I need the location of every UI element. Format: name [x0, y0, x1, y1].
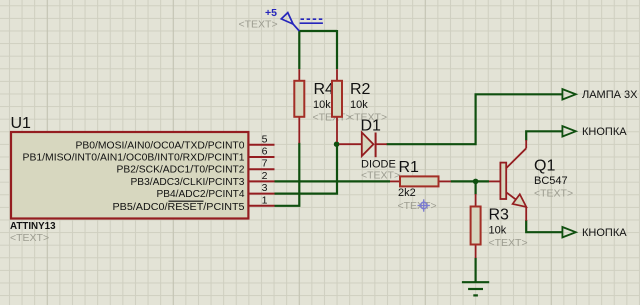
- U1 pin stub PB2 (pin 7): [249, 168, 275, 170]
- wire: R4 bottom to PB5 pin1: [275, 143, 300, 206]
- power terminal +5: [281, 13, 299, 31]
- U1 pin stub PB5 (pin 1): [249, 205, 275, 207]
- U1 pin stub PB1 (pin 6): [249, 156, 275, 158]
- svg-text:+5: +5: [265, 7, 277, 19]
- wire: diode cathode to LAMPA terminal: [387, 94, 563, 144]
- svg-text:PB3/ADC3/CLKI/PCINT3: PB3/ADC3/CLKI/PCINT3: [131, 177, 245, 188]
- emitter arrowhead: [513, 194, 527, 207]
- svg-text:U1: U1: [11, 115, 32, 132]
- transistor Q1: [489, 140, 526, 221]
- svg-text:ATTINY13: ATTINY13: [10, 221, 56, 232]
- emitter lead down: [525, 207, 527, 221]
- base lead: [489, 180, 500, 182]
- svg-text:PB5/ADC0/RESET/PCINT5: PB5/ADC0/RESET/PCINT5: [113, 202, 245, 213]
- resistor R3: [471, 194, 481, 258]
- svg-text:PB1/MISO/INT0/AIN1/OC0B/INT0/R: PB1/MISO/INT0/AIN1/OC0B/INT0/RXD/PCINT1: [23, 153, 245, 164]
- svg-text:7: 7: [262, 158, 268, 170]
- svg-text:R2: R2: [350, 81, 371, 98]
- svg-text:ЛАМПА 3Х: ЛАМПА 3Х: [582, 89, 638, 101]
- U1 pin stub PB3 (pin 2): [249, 180, 275, 182]
- svg-text:Q1: Q1: [534, 158, 555, 175]
- chip U1 body: [11, 132, 248, 219]
- wire: +5 rail top horizontal: [299, 30, 337, 32]
- svg-text:5: 5: [262, 133, 268, 145]
- wire: collector to KNOPKA top terminal: [526, 131, 562, 140]
- wire: +5 rail down to R4: [298, 30, 300, 69]
- origin marker (blue crosshair): [418, 199, 430, 211]
- svg-text:<TEXT>: <TEXT>: [534, 188, 573, 200]
- svg-text:<TEXT>: <TEXT>: [239, 18, 278, 30]
- svg-text:<TEXT>: <TEXT>: [489, 237, 528, 249]
- wire: +5 rail down to R2: [336, 30, 338, 69]
- svg-text:10k: 10k: [350, 99, 368, 111]
- diode D1: [339, 132, 387, 157]
- svg-text:<TEXT>: <TEXT>: [10, 232, 49, 244]
- collector diagonal: [506, 148, 526, 168]
- blue solid marker line: [300, 22, 323, 24]
- U1 pin stub PB4 (pin 3): [249, 193, 275, 195]
- base bar: [500, 163, 506, 199]
- wire: PB3 pin2 to R1: [275, 180, 391, 182]
- wire: R1 right to junction to Q1 base: [451, 180, 489, 182]
- svg-text:КНОПКА: КНОПКА: [582, 126, 627, 138]
- svg-text:<TEXT>: <TEXT>: [398, 200, 437, 212]
- svg-text:BC547: BC547: [534, 175, 568, 187]
- svg-text:R3: R3: [489, 207, 510, 224]
- svg-text:КНОПКА: КНОПКА: [582, 227, 627, 239]
- svg-text:10k: 10k: [489, 225, 507, 237]
- ground: [462, 282, 489, 295]
- wire: junction down to R3: [475, 181, 477, 194]
- U1 pin stub PB0 (pin 5): [249, 144, 275, 146]
- svg-text:PB4/ADC2/PCINT4: PB4/ADC2/PCINT4: [157, 189, 245, 200]
- svg-text:2k2: 2k2: [398, 187, 416, 199]
- svg-text:2: 2: [262, 170, 268, 182]
- svg-text:R1: R1: [399, 159, 420, 176]
- major grid lines: [47, 0, 551, 305]
- terminal KNOPKA top: [562, 126, 575, 136]
- svg-text:1: 1: [262, 194, 268, 206]
- svg-text:D1: D1: [361, 118, 382, 135]
- resistor R4: [294, 69, 304, 143]
- terminal KNOPKA bottom: [562, 227, 575, 237]
- node: junction R2/D1/PB4: [334, 141, 340, 147]
- wire: R3 bottom to ground: [475, 258, 477, 282]
- emitter diagonal: [506, 192, 526, 207]
- svg-text:R4: R4: [314, 81, 335, 98]
- svg-text:PB0/MOSI/AIN0/OC0A/TXD/PCINT0: PB0/MOSI/AIN0/OC0A/TXD/PCINT0: [76, 140, 245, 151]
- svg-text:10k: 10k: [313, 99, 331, 111]
- RESET overline on PB5 label: [169, 200, 204, 202]
- wire: emitter to KNOPKA bottom terminal: [526, 220, 562, 232]
- terminal LAMPA 3X: [562, 89, 575, 99]
- resistor R1: [390, 176, 451, 186]
- wire: R2 bottom node down to PB4 pin3: [275, 144, 338, 193]
- node: junction R1/R3/Q1 base: [473, 179, 479, 185]
- svg-text:3: 3: [262, 182, 268, 194]
- blue dashed marker line: [301, 18, 323, 20]
- svg-text:<TEXT>: <TEXT>: [361, 170, 400, 182]
- svg-text:6: 6: [262, 146, 268, 158]
- collector lead up: [525, 140, 527, 148]
- svg-text:PB2/SCK/ADC1/T0/PCINT2: PB2/SCK/ADC1/T0/PCINT2: [117, 165, 245, 176]
- resistor R2: [332, 69, 342, 142]
